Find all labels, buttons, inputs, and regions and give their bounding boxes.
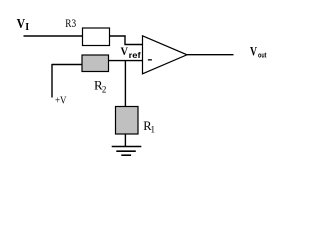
svg-text:2: 2: [102, 84, 107, 94]
svg-text:out: out: [258, 52, 267, 59]
svg-text:V: V: [17, 17, 26, 32]
svg-text:R3: R3: [65, 16, 76, 30]
svg-text:V: V: [121, 44, 129, 58]
svg-text:ref: ref: [129, 51, 141, 60]
svg-text:V: V: [250, 45, 257, 59]
svg-text:+V: +V: [55, 94, 67, 106]
svg-text:1: 1: [151, 124, 156, 134]
svg-text:I: I: [25, 22, 29, 33]
